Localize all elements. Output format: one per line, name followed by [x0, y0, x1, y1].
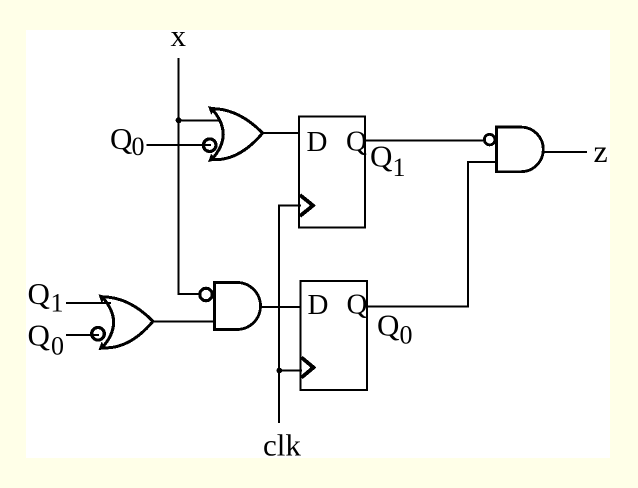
svg-text:z: z	[594, 133, 608, 169]
svg-text:D: D	[307, 126, 328, 158]
svg-text:Q: Q	[377, 308, 399, 343]
or-gate G1 (top)	[208, 106, 263, 162]
wire x to G1 top input	[179, 119, 221, 121]
wire G3 output to z	[544, 151, 588, 153]
junction dot on clk wire	[277, 368, 283, 374]
junction dot on x wire	[176, 117, 182, 123]
flip-flop U2 body	[301, 281, 368, 390]
svg-text:0: 0	[132, 132, 145, 161]
svg-text:Q: Q	[28, 276, 50, 311]
flip-flop U1 body	[299, 117, 365, 228]
svg-text:Q: Q	[110, 121, 132, 156]
svg-text:clk: clk	[263, 428, 301, 463]
wire Q0 to G2 bubble input	[66, 334, 99, 336]
svg-text:0: 0	[400, 321, 413, 350]
U2 clock triangle	[302, 358, 314, 378]
wire G2 output to G4 lower input	[153, 321, 215, 323]
svg-text:Q: Q	[346, 126, 367, 158]
svg-text:0: 0	[51, 332, 64, 361]
wire x vertical	[179, 58, 201, 294]
wire U2 Q to G3 lower input	[367, 162, 496, 306]
nand-gate G3 body (right)	[496, 127, 543, 172]
svg-text:Q: Q	[370, 139, 392, 174]
bubble on G3 top input	[484, 134, 495, 145]
wire G4 output to U2 D	[261, 306, 301, 308]
nand-gate G4 body (middle)	[214, 283, 260, 330]
bubble on G1 lower input	[203, 139, 216, 152]
svg-text:Q: Q	[28, 318, 50, 353]
svg-text:Q: Q	[347, 289, 368, 321]
wire clk to U1 clock	[279, 206, 301, 424]
svg-text:D: D	[308, 289, 329, 321]
wire U1 Q output	[365, 139, 486, 141]
svg-text:x: x	[171, 18, 187, 53]
U1 clock triangle	[300, 195, 313, 216]
wire Q1 to G2 top input	[66, 302, 111, 304]
bubble on G4 top input	[200, 288, 212, 300]
wire G1 output to U1 D	[262, 132, 299, 134]
or-gate G2 (bottom)	[99, 294, 154, 350]
wire Q0 to G1 bubble input	[147, 144, 212, 146]
svg-text:1: 1	[51, 289, 64, 318]
bubble on G2 lower input	[92, 328, 105, 341]
wire clk to U2 clock	[279, 370, 302, 372]
svg-text:1: 1	[393, 153, 406, 182]
